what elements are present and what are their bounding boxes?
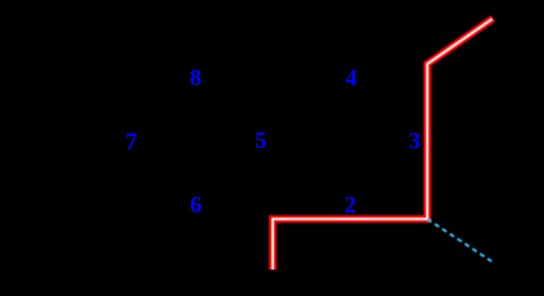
highlighted main chain (red): [273, 18, 493, 269]
svg-text:8: 8: [190, 65, 202, 90]
svg-text:4: 4: [345, 66, 357, 91]
dashed bond (cyan): [427, 219, 492, 262]
svg-text:2: 2: [345, 192, 357, 217]
svg-text:7: 7: [126, 129, 138, 154]
bond line core (white) over the red highlight: [273, 19, 492, 269]
svg-text:3: 3: [409, 129, 421, 154]
svg-text:5: 5: [255, 128, 267, 153]
svg-text:6: 6: [190, 192, 202, 217]
